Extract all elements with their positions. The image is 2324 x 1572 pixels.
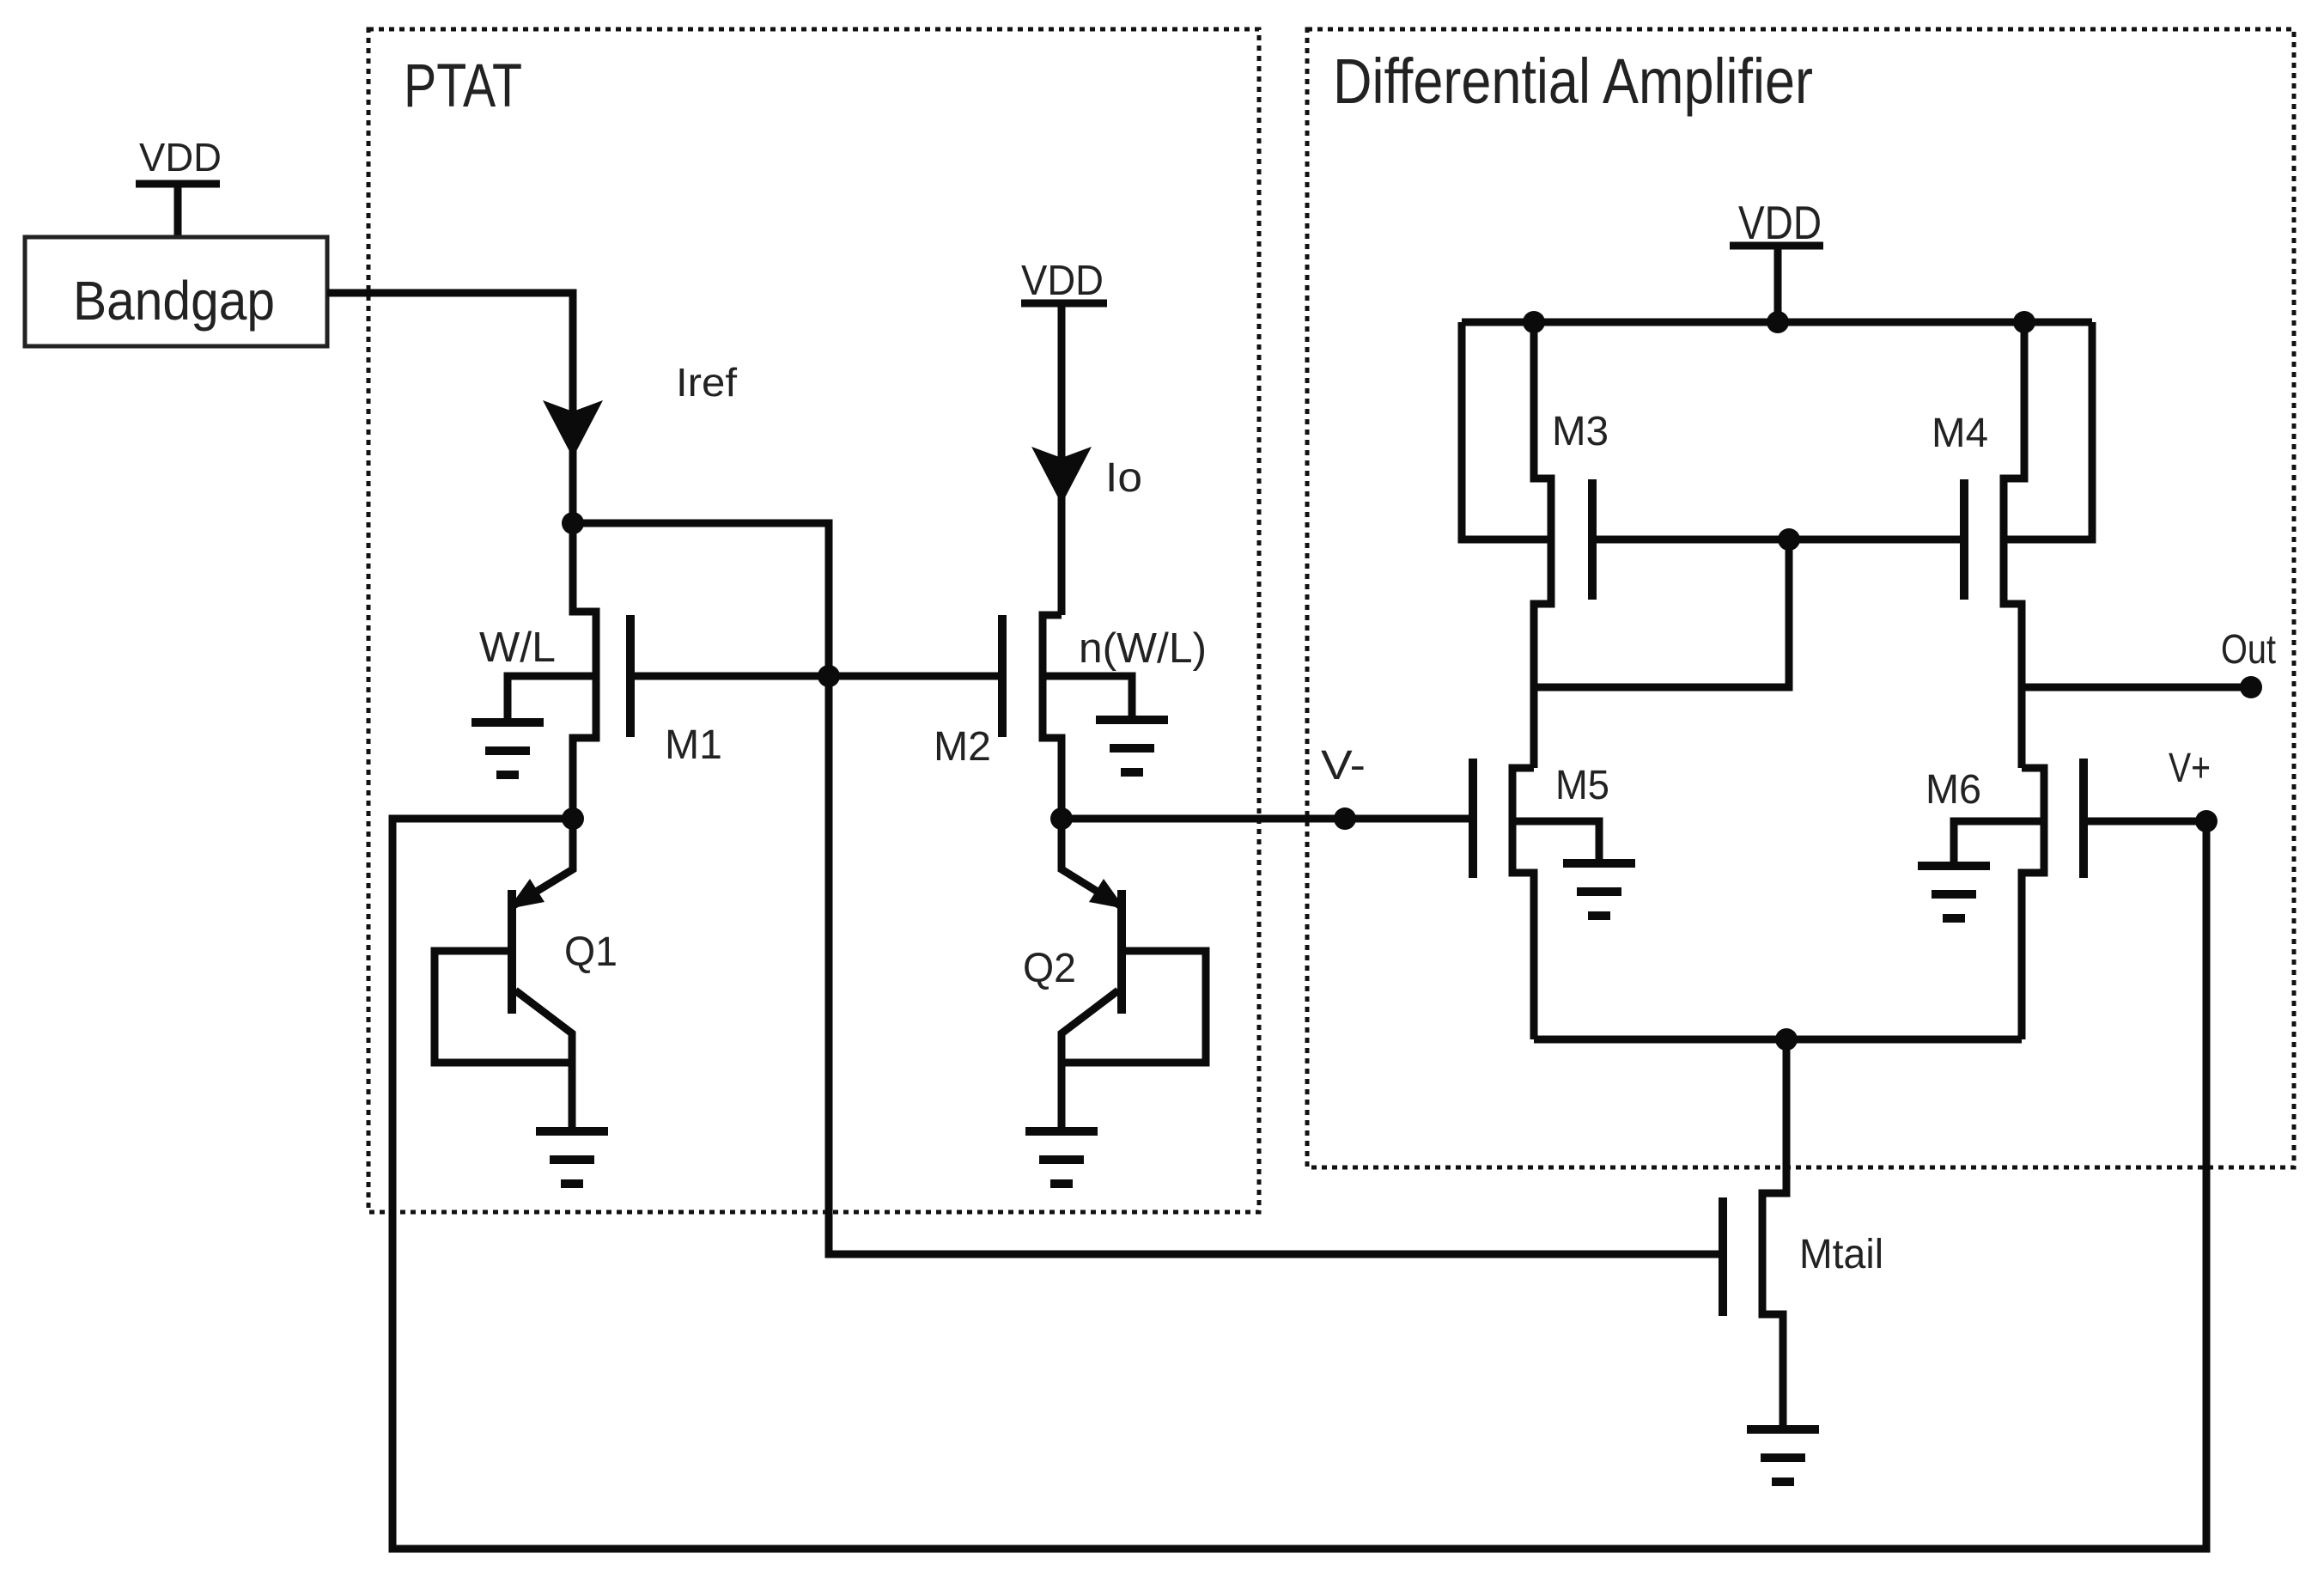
ground (Mtail)	[1747, 1429, 1819, 1482]
wire diode tie M3	[1534, 539, 1789, 687]
svg-text:VDD: VDD	[139, 135, 222, 180]
M6 bulk to ground	[1954, 821, 2044, 866]
node V-	[1334, 807, 1356, 830]
wire M3 bulk loop to rail	[1462, 322, 1551, 539]
transistor M1	[573, 523, 596, 819]
Iref current arrow	[543, 400, 603, 458]
ground (M5 bulk)	[1563, 863, 1635, 916]
PTAT box	[368, 29, 1259, 1212]
wire V- net (Q2 node to M5 gate)	[1062, 815, 1473, 823]
svg-text:V+: V+	[2169, 746, 2211, 791]
svg-text:M2: M2	[934, 724, 991, 770]
transistor Mtail	[1762, 1039, 1786, 1429]
transistor M2	[1043, 615, 1062, 819]
svg-text:M4: M4	[1932, 411, 1988, 456]
svg-text:n(W/L): n(W/L)	[1079, 625, 1207, 672]
wire M6 gate to V+	[2084, 818, 2206, 826]
wire M3 gate to node	[1592, 536, 1789, 544]
node V+	[2195, 810, 2218, 832]
wire VDD top rail	[1462, 319, 2092, 326]
ground (Q1)	[536, 1131, 608, 1184]
svg-text:M6: M6	[1926, 767, 1981, 813]
node Out terminal	[2240, 676, 2262, 698]
svg-text:Out: Out	[2221, 627, 2276, 673]
transistor M4	[2004, 322, 2024, 768]
transistor Q2 (PNP)	[1062, 819, 1120, 905]
svg-text:M5: M5	[1555, 763, 1609, 808]
svg-text:W/L: W/L	[479, 625, 556, 671]
node Q1 emitter	[562, 807, 584, 830]
svg-text:V-: V-	[1321, 743, 1366, 789]
svg-text:Iref: Iref	[676, 360, 737, 405]
wire Out	[2022, 684, 2251, 692]
svg-text:Q2: Q2	[1023, 946, 1076, 991]
svg-text:VDD: VDD	[1738, 196, 1822, 249]
svg-text:Bandgap: Bandgap	[73, 270, 275, 332]
M1 bulk to ground	[508, 676, 596, 722]
ground (M2 bulk)	[1096, 720, 1168, 772]
Io current arrow	[1031, 447, 1092, 504]
node Q2 emitter	[1050, 807, 1073, 830]
node mirror gates	[1778, 528, 1800, 551]
svg-text:Mtail: Mtail	[1799, 1232, 1883, 1277]
svg-text:VDD: VDD	[1021, 258, 1104, 304]
M2 bulk to ground	[1043, 676, 1132, 720]
ground (Q2)	[1025, 1131, 1098, 1184]
node gate junction	[818, 665, 840, 687]
svg-text:Differential Amplifier: Differential Amplifier	[1333, 46, 1813, 117]
wire M4 gate to node	[1789, 536, 1964, 544]
svg-text:M3: M3	[1552, 409, 1609, 454]
wire M4 bulk loop to rail	[2004, 322, 2092, 539]
ground (M6 bulk)	[1918, 866, 1990, 918]
wire M1 drain to gates and Mtail gate	[573, 523, 1723, 1254]
wire tail rail	[1534, 1036, 2022, 1044]
svg-text:M1: M1	[665, 722, 722, 768]
svg-text:Io: Io	[1105, 455, 1142, 501]
svg-text:Q1: Q1	[564, 929, 618, 975]
transistor M5	[1512, 768, 1534, 1039]
Bandgap block	[25, 237, 327, 346]
Differential Amplifier box	[1307, 29, 2294, 1167]
svg-text:PTAT: PTAT	[404, 52, 522, 120]
node M1 drain	[562, 512, 584, 534]
transistor Q1 (PNP)	[514, 819, 573, 905]
node tail	[1775, 1028, 1798, 1051]
wire M1/M2 gate wire	[630, 673, 1002, 680]
transistor M3	[1534, 322, 1551, 768]
wire Bandgap to M1 drain	[327, 293, 573, 523]
transistor M6	[2022, 768, 2044, 1039]
ground (M1 bulk)	[471, 722, 544, 775]
M5 bulk to ground	[1512, 821, 1599, 863]
wire Q1 node to V+ loop (left, bottom, right)	[392, 819, 2206, 1549]
